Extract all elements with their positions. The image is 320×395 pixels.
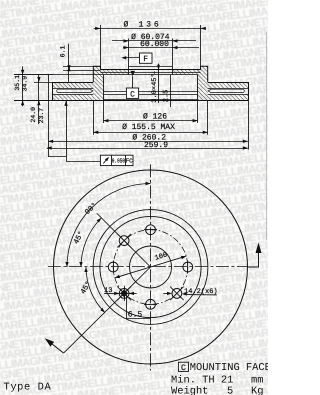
type label: [4, 381, 52, 393]
dimension 260 extension line right: [248, 100, 250, 149]
hat bowl interior line 2: [103, 94, 197, 96]
svg-text:mm: mm: [251, 374, 263, 386]
dimension 3.0x45 line: [157, 64, 160, 104]
view direction arrow lower-left: [45, 338, 64, 353]
svg-text:6.1: 6.1: [60, 46, 67, 58]
svg-text:3.0×45°: 3.0×45°: [151, 73, 159, 102]
bolt hole lower-right: [172, 289, 182, 299]
dimension 14.2(x6) text: [184, 287, 218, 296]
band plate inner face lines right: [208, 89, 249, 95]
hat flange top face: [101, 69, 201, 71]
datum F box: [140, 53, 153, 64]
friction band top face right: [208, 82, 249, 84]
bolt circle Ø100 centerline: [113, 230, 188, 305]
dimension Ø 126 line: [103, 119, 197, 122]
dimension 24.0 extension line: [34, 82, 53, 84]
hat wall right hatching: [198, 66, 208, 100]
svg-text:24.0: 24.0: [30, 107, 37, 123]
dimension Ø 155.5 MAX extension lines: [94, 100, 208, 135]
bolt hole left: [108, 262, 118, 272]
angle 90deg arc: [65, 182, 150, 267]
hat flange mid line: [101, 72, 201, 74]
bolt hole top: [146, 225, 156, 235]
dimension Ø 136 extension lines: [101, 25, 201, 66]
svg-text:Kg: Kg: [251, 386, 263, 395]
svg-text:Ø 136: Ø 136: [123, 20, 161, 29]
dimension 3.0x45 text: [151, 71, 159, 103]
mounting face text: [190, 362, 271, 374]
vent slot left: [57, 89, 93, 92]
drawing sheet right border: [266, 32, 268, 240]
bolt hole upper-left: [119, 236, 129, 246]
svg-text:MOUNTING FACE: MOUNTING FACE: [190, 362, 268, 374]
datum C triangle: [130, 71, 135, 88]
dimension Ø 60.074 line: [112, 39, 196, 42]
bolt hole lower-left (sectioned): [119, 289, 129, 299]
svg-text:14.2(x6): 14.2(x6): [184, 287, 218, 296]
hat bowl interior line 1: [103, 91, 197, 93]
front view circle Ø155.5: [93, 210, 208, 325]
dimension 13 text: [104, 287, 112, 295]
hat flange left hatching: [101, 70, 129, 75]
hat bowl interior line 3: [103, 99, 197, 101]
disc section outer edge right: [248, 82, 250, 100]
svg-text:34.9: 34.9: [22, 76, 29, 92]
hat rim step right: [201, 66, 208, 82]
dimension 6.1 extension line top: [63, 66, 101, 68]
dimension 2.5 line: [170, 75, 172, 107]
dimension Ø 155.5 MAX line: [93, 131, 207, 134]
dimension Ø 260.2 text: [132, 133, 166, 142]
runout leader: [48, 100, 100, 161]
dimension 259.9 text: [144, 141, 168, 150]
dimension Ø 60.074 text: [131, 33, 170, 42]
runout value 0.050: [112, 158, 125, 165]
min thickness text: [171, 374, 263, 386]
runout symbol: [103, 157, 109, 164]
dimension 259.9 line: [47, 146, 248, 149]
dimension 35.1 extension line: [14, 74, 53, 76]
horizontal centerline: [48, 266, 248, 268]
weight text: [171, 386, 263, 395]
dimension Ø 136 line: [94, 27, 206, 30]
dimension 34.9 text: [22, 76, 29, 92]
dimension 60.000 line: [123, 46, 199, 49]
left hole tick: [113, 261, 115, 274]
datum F leader arrow: [121, 56, 139, 59]
dimension Ø 126 text: [143, 112, 167, 121]
svg-text:C: C: [130, 90, 135, 99]
svg-text:13: 13: [104, 287, 112, 295]
svg-text:35.1: 35.1: [14, 75, 21, 91]
radial line 225deg: [64, 267, 151, 353]
svg-text:5: 5: [227, 386, 233, 395]
bolt hole bottom: [146, 299, 156, 309]
mounting face C box: [178, 362, 188, 373]
hat rim step left: [93, 66, 100, 82]
friction band top plate left hatching: [53, 82, 94, 88]
dimension Ø 260.2 line: [48, 140, 248, 143]
angle 45deg upper text: [72, 230, 86, 246]
friction band bottom plate left hatching: [53, 94, 94, 100]
rotation arrow right: [248, 243, 261, 268]
lower-left hole section mark: [117, 286, 132, 301]
dimension 100 line: [115, 256, 186, 278]
svg-text:6.5: 6.5: [128, 311, 143, 320]
svg-text:Type DA: Type DA: [4, 381, 52, 393]
angle 45deg lower text: [79, 280, 94, 296]
band plate inner face lines left: [53, 89, 94, 95]
top hole tick: [144, 229, 157, 231]
hub bore circle Ø60: [130, 246, 172, 288]
friction band top face left: [53, 82, 94, 84]
svg-text:F: F: [143, 55, 148, 64]
dimension 23.7 text: [38, 108, 45, 124]
vent slot right: [208, 89, 244, 92]
svg-text:C: C: [181, 364, 186, 373]
hat flange right hatching: [173, 70, 201, 75]
svg-text:0.050: 0.050: [112, 158, 125, 165]
hat wall inner edge left: [103, 75, 105, 100]
svg-text:Ø 126: Ø 126: [143, 112, 167, 121]
svg-text:2.5: 2.5: [162, 90, 170, 103]
hat flange bottom face: [14, 74, 198, 76]
bottom hole tick: [144, 304, 157, 306]
upper-left hole cross: [117, 234, 131, 248]
hub bore edge left: [128, 39, 130, 75]
dimension Ø 155.5 MAX text: [122, 123, 175, 132]
dimension 60.000 text: [140, 40, 169, 49]
dimension 35.1 text: [14, 75, 21, 91]
dimension 100 text: [154, 251, 168, 262]
dimension 6.5 text: [128, 311, 143, 320]
dimension Ø 126 extension lines: [104, 100, 198, 123]
dimension Ø 136 text: [123, 20, 161, 29]
angle 45deg lower arc: [84, 267, 105, 313]
hub bore far chamfer edge: [129, 66, 173, 68]
angle 45deg upper arc: [79, 218, 101, 267]
dimension 2.5 text: [162, 90, 170, 103]
svg-text:23.7: 23.7: [38, 108, 45, 124]
friction band top plate right hatching: [208, 82, 249, 88]
dimension 35.1 line: [21, 66, 24, 106]
lower-right hole cross: [170, 287, 184, 301]
svg-text:Weight: Weight: [171, 386, 208, 395]
dimension 260 extension line left: [48, 75, 50, 157]
svg-text:Ø 155.5 MAX: Ø 155.5 MAX: [122, 123, 175, 132]
dimension 6.1 line: [67, 44, 70, 82]
dimension 24.0 text: [30, 107, 37, 123]
runout feature control frame: [100, 155, 133, 165]
dimension 6.1 text: [60, 46, 67, 58]
bolt hole right: [183, 262, 193, 272]
front view outer circle Ø260: [54, 170, 248, 364]
hat wall inner edge right: [197, 75, 199, 100]
hub bore edge right: [172, 39, 174, 75]
dimension 6.5 leader: [127, 296, 151, 319]
dimension 13 arrows: [104, 292, 137, 295]
disc section outer edge left: [52, 82, 54, 100]
hat wall left hatching: [93, 66, 103, 100]
svg-text:+: +: [152, 71, 158, 74]
dimension 24.0 line: [37, 74, 40, 124]
dimension 14.2 arrows: [163, 292, 217, 296]
angle 90deg text: [83, 201, 99, 217]
front view circle Ø136: [100, 216, 201, 317]
friction band bottom plate right hatching: [208, 94, 249, 100]
vertical centerline: [150, 164, 152, 370]
radial line 135deg: [97, 213, 151, 267]
runout datum FC: [126, 158, 133, 165]
friction band bottom face: [14, 100, 248, 102]
svg-text:FC: FC: [126, 158, 133, 165]
datum C box: [126, 88, 138, 99]
right hole tick: [187, 261, 189, 274]
svg-text:Min. TH 21: Min. TH 21: [171, 374, 233, 386]
dimension 6.1 extension line bottom: [63, 70, 101, 72]
